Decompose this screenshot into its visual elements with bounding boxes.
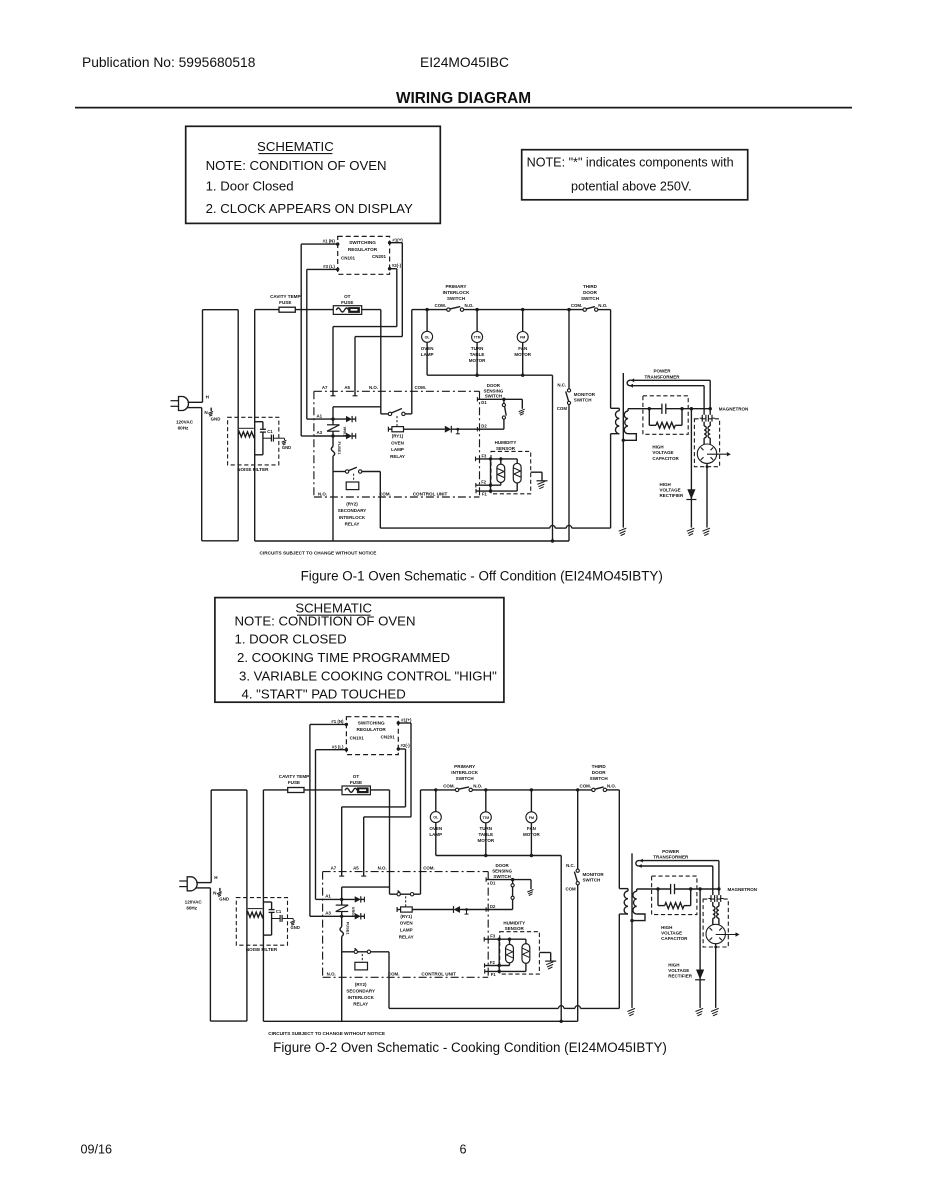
wire primary return [610,434,612,528]
label COM. bottom [379,491,390,496]
svg-text:TURN: TURN [471,346,484,351]
relay RY1 link [405,896,407,907]
svg-text:HUMIDITY: HUMIDITY [503,920,525,925]
magnetron dashed box [703,899,728,947]
svg-text:LAMP: LAMP [391,447,404,452]
third door switch S3 [592,787,607,792]
capacitor C1 [260,422,266,455]
svg-text:MONITOR: MONITOR [583,872,605,877]
oven lamp OL [422,310,433,376]
control unit dashed boundary [323,872,489,978]
ground rectifier [687,528,695,536]
relay RY2 link [361,954,363,962]
label FUSE1 [337,442,342,456]
fuse cavity temp [279,307,295,312]
svg-text:TRANSFORMER: TRANSFORMER [645,374,681,379]
wire pin1+ to A5 [355,243,402,392]
svg-text:TRANSFORMER: TRANSFORMER [653,855,689,860]
svg-text:SWITCH: SWITCH [456,776,475,781]
label HUMIDITY SENSOR [503,920,525,931]
svg-text:SCHEMATIC: SCHEMATIC [257,139,334,154]
label N.O. primary [473,784,482,789]
label SWITCHING REGULATOR [348,240,378,252]
relay contact RY2 [342,948,389,953]
svg-text:F1: F1 [491,972,497,977]
ground at plug [217,888,222,897]
svg-text:F2: F2 [490,960,496,965]
svg-text:1. DOOR CLOSED: 1. DOOR CLOSED [235,632,347,647]
svg-text:CONTROL UNIT: CONTROL UNIT [413,491,448,496]
wire sensor bypass [490,459,492,491]
svg-text:N.O.: N.O. [473,784,482,789]
svg-text:MOTOR: MOTOR [514,352,531,357]
svg-text:FAN: FAN [518,346,527,351]
terminal D1 [481,400,487,405]
svg-text:PRIMARY: PRIMARY [445,284,466,289]
terminal F2 [481,480,487,485]
wire D2 line [486,907,512,911]
high voltage capacitor dashed box [652,876,697,915]
svg-text:INTERLOCK: INTERLOCK [348,995,375,1000]
svg-text:C1: C1 [267,429,273,434]
transformer T1 primary [619,889,628,914]
node bypass junctions [489,484,492,493]
node TTM return [475,374,478,377]
svg-text:SECONDARY: SECONDARY [338,508,367,513]
relay contact RY1 [390,891,421,896]
magnetron filament leads [713,861,719,896]
pin #1(N) [331,719,348,726]
label GND noise filter [291,925,300,930]
svg-text:SWITCHING: SWITCHING [349,240,376,245]
label CN101 [341,255,356,260]
test point on lamp line [456,428,460,434]
label CN101 [350,736,365,741]
node OL tap [434,788,437,791]
switching regulator U1 dashed box [338,236,390,274]
label C1 [276,909,282,914]
wire lamp return [427,375,552,541]
svg-text:INTERLOCK: INTERLOCK [451,770,478,775]
svg-text:CAPACITOR: CAPACITOR [661,936,688,941]
wire neutral drop [209,888,211,1021]
label MONITOR SWITCH [583,872,605,883]
label 120VAC 60Hz [176,419,194,430]
relay coil RY2 [346,482,359,490]
capacitor C2 [272,915,287,922]
svg-text:COM.: COM. [415,385,426,390]
label MAGNETRON [728,887,758,892]
svg-text:CIRCUITS SUBJECT TO CHANGE WIT: CIRCUITS SUBJECT TO CHANGE WITHOUT NOTIC… [260,551,377,556]
label SWITCHING REGULATOR [357,720,387,732]
label N.C. [557,383,566,388]
node FM return [530,854,533,857]
svg-text:NOISE FILTER: NOISE FILTER [237,467,269,472]
node HV junctions [648,407,712,410]
wire HV line [628,408,710,410]
high voltage rectifier DH [695,889,705,1008]
wire F2 line [485,963,510,967]
svg-text:SECONDARY: SECONDARY [346,989,375,994]
svg-text:F2: F2 [481,480,487,485]
svg-text:A5: A5 [353,866,359,871]
inductor L1 [238,432,255,437]
svg-text:FUSE1: FUSE1 [337,442,342,456]
svg-text:VR01: VR01 [343,426,348,437]
fuse FUSE1 [340,916,343,952]
wire top loop [203,309,239,311]
wire F1 line [476,489,517,493]
AC plug P1 [171,397,203,411]
wire pin1N to A3 [301,244,338,436]
wire top loop [211,789,247,791]
svg-text:#2(-): #2(-) [401,743,411,748]
node monitor tap [567,308,570,311]
svg-text:N.O.: N.O. [369,385,378,390]
svg-text:FUSE1: FUSE1 [346,922,351,936]
node core junction [630,919,633,922]
svg-text:OL: OL [433,816,439,820]
svg-text:potential above 250V.: potential above 250V. [571,180,692,194]
svg-text:POWER: POWER [653,369,671,374]
terminal A7 [331,866,345,877]
wire hot riser [210,790,212,883]
label FAN MOTOR [514,346,531,357]
svg-text:SWITCH: SWITCH [581,296,600,301]
fuse cavity temp [288,788,304,793]
svg-text:CAPACITOR: CAPACITOR [652,456,679,461]
svg-text:#1 (N): #1 (N) [323,239,336,244]
fan motor FM [526,790,537,856]
ground rectifier [696,1008,704,1016]
label COM. third [571,303,582,308]
magnetron filament leads [704,380,710,415]
wire pin2- to A7 [333,269,397,392]
ground in noise filter [287,919,295,926]
wire magnetron cathode [706,463,709,527]
svg-text:OVEN: OVEN [421,346,434,351]
svg-text:DOOR: DOOR [487,383,501,388]
wire bus to cavity fuse [263,789,287,791]
control unit dashed boundary [314,391,480,497]
terminal D2 [481,424,487,429]
label N.O. bottom [327,972,336,977]
svg-text:VOLTAGE: VOLTAGE [652,450,673,455]
svg-text:DOOR: DOOR [496,863,510,868]
wire COM return [389,1006,619,1009]
svg-text:GND: GND [282,445,291,450]
ground in noise filter [278,438,286,445]
wire line riser [246,790,248,1021]
svg-text:RELAY: RELAY [399,934,414,939]
high voltage rectifier DH [686,409,696,528]
magnetron tube V1 [697,444,731,463]
svg-text:3. VARIABLE COOKING CONTROL "H: 3. VARIABLE COOKING CONTROL "HIGH" [239,669,497,684]
svg-text:CIRCUITS SUBJECT TO CHANGE WIT: CIRCUITS SUBJECT TO CHANGE WITHOUT NOTIC… [268,1031,385,1036]
wire bottom loop [210,1020,247,1022]
turntable motor TTM [472,310,483,376]
wire F3 line [484,937,526,942]
svg-text:DOOR: DOOR [583,290,597,295]
svg-text:N.C.: N.C. [566,863,575,868]
label COM. primary [435,303,446,308]
label FUSE1 [346,922,351,936]
node A1 junction [340,898,343,901]
wire branch to A1 [342,887,390,899]
wire D2 line [477,427,504,431]
svg-text:MAGNETRON: MAGNETRON [728,887,758,892]
label OVEN LAMP [421,346,434,357]
terminal A3 [325,911,331,916]
svg-text:TABLE: TABLE [470,352,485,357]
terminal F3 [482,453,488,458]
wire neutral bottom [263,1020,577,1022]
svg-text:4. "START" PAD TOUCHED: 4. "START" PAD TOUCHED [242,687,406,702]
label POWER TRANSFORMER [653,849,689,860]
svg-text:A1: A1 [317,413,323,418]
svg-text:F3: F3 [482,453,488,458]
filament feedthrough capacitors [708,895,723,906]
svg-text:N.O.: N.O. [318,491,327,496]
svg-text:FUSE: FUSE [350,780,362,785]
node monitor tap [576,788,579,791]
svg-text:CN201: CN201 [372,254,387,259]
svg-text:COM.: COM. [580,784,591,789]
node A3 junction [340,915,343,918]
svg-text:FM: FM [529,816,534,820]
svg-text:VOLTAGE: VOLTAGE [660,488,681,493]
label PRIMARY INTERLOCK SWITCH [451,764,478,781]
horizontal rule [75,107,852,109]
terminal F2 [490,960,496,965]
svg-text:RELAY: RELAY [345,521,360,526]
node FM tap [521,308,524,311]
varistor VR01 [336,899,349,916]
svg-text:(RY1): (RY1) [392,434,404,439]
relay RY1 link [396,416,398,427]
wire F1 line [485,969,526,973]
svg-text:A3: A3 [325,911,331,916]
svg-text:F3: F3 [490,934,496,939]
wire neutral through filter [254,310,256,541]
label GND [211,416,221,421]
ground door switch [527,880,533,896]
wire contact to COM return [388,952,390,1009]
label CN201 [372,254,387,259]
transformer filament winding [636,859,719,868]
wire OT fuse to relay [362,309,381,311]
noise filter dashed box [236,898,287,946]
svg-text:THIRD: THIRD [592,764,607,769]
ground magnetron [702,528,710,536]
terminal A5 [353,866,366,877]
label RY2 SECONDARY INTERLOCK RELAY [346,982,375,1007]
wire contact to COM return [379,472,381,529]
monitor switch S4 [566,310,571,541]
humidity sensor dashed box [500,932,540,974]
svg-text:DOOR: DOOR [592,770,606,775]
label GND noise filter [282,445,291,450]
node neutral junction [551,539,554,542]
svg-text:COM.: COM. [443,784,454,789]
AC plug P1 [179,877,211,891]
door sensing switch S2 [502,399,506,429]
magnetron dashed box [694,419,719,467]
svg-text:VR01: VR01 [351,907,356,918]
svg-text:GND: GND [211,416,221,421]
transformer T1 core [622,373,624,440]
svg-text:Publication No: 5995680518: Publication No: 5995680518 [82,55,256,70]
label N.O. top [369,385,378,390]
label N.O. primary [465,303,474,308]
svg-text:PRIMARY: PRIMARY [454,764,475,769]
wire primary return [618,914,620,1008]
svg-text:TURN: TURN [480,826,493,831]
label DOOR SENSING SWITCH [484,383,504,399]
svg-text:TABLE: TABLE [478,832,493,837]
terminal D1 [490,880,496,885]
svg-text:COM: COM [557,406,568,411]
capacitor CH plates [662,404,666,414]
svg-text:#2(-): #2(-) [392,263,402,268]
wire neutral through filter [262,790,264,1021]
transformer T1 secondary [632,889,645,921]
svg-text:VOLTAGE: VOLTAGE [668,968,689,973]
pin #2(-) [397,743,411,751]
svg-text:FUSE: FUSE [279,300,291,305]
primary interlock switch S1 [455,787,472,792]
label COM. primary [443,784,454,789]
ground door switch [519,399,525,415]
label COM. third [580,784,591,789]
terminal A1 [317,413,323,418]
terminal D2 [490,904,496,909]
label N.C. [566,863,575,868]
node D1 junction [502,398,505,401]
ground magnetron [711,1008,719,1016]
svg-text:WIRING DIAGRAM: WIRING DIAGRAM [396,90,531,107]
svg-text:FUSE: FUSE [288,780,300,785]
diode on A3 line [314,433,356,439]
svg-text:POWER: POWER [662,849,680,854]
relay coil RY1 [388,427,403,432]
label VR01 [351,907,356,918]
svg-text:FUSE: FUSE [341,300,353,305]
bleed resistor RH [649,409,682,429]
label HIGH VOLTAGE RECTIFIER [660,482,685,498]
humidity sensor dashed box [491,451,531,493]
svg-text:LAMP: LAMP [429,832,442,837]
svg-text:Figure O-2 Oven Schematic - Co: Figure O-2 Oven Schematic - Cooking Cond… [273,1040,667,1055]
label VR01 [343,426,348,437]
capacitor C1 stubs [255,422,263,455]
label N.O. third [598,303,607,308]
wire third switch drop [610,310,612,409]
svg-text:REGULATOR: REGULATOR [357,727,387,732]
svg-text:CN101: CN101 [341,255,356,260]
relay coil RY1 [397,907,412,912]
wire line riser [237,310,239,541]
node F3 junctions [498,938,512,941]
label HIGH VOLTAGE CAPACITOR [661,925,688,941]
relay contact RY2 [333,467,380,473]
filament feedthrough capacitors [700,415,715,426]
label POWER TRANSFORMER [645,369,681,380]
svg-text:#1 (N): #1 (N) [331,719,344,724]
svg-text:NOTE: CONDITION OF OVEN: NOTE: CONDITION OF OVEN [206,158,387,173]
svg-text:CONTROL UNIT: CONTROL UNIT [421,972,456,977]
label MONITOR SWITCH [574,392,596,403]
ground humidity [531,472,548,489]
pin #1(+) [388,237,403,244]
label C1 [267,429,273,434]
primary interlock switch S1 [447,307,464,312]
inductor L1 core [239,427,254,429]
wire lamp bus [412,309,611,311]
svg-text:D2: D2 [481,424,487,429]
wire sensor bypass [498,939,500,971]
transformer T1 primary [611,408,620,433]
svg-text:SENSOR: SENSOR [496,446,516,451]
wire F3 line [476,457,518,462]
svg-text:SWITCH: SWITCH [590,776,609,781]
svg-text:SWITCH: SWITCH [447,296,466,301]
label DOOR SENSING SWITCH [492,863,512,879]
label TURN TABLE MOTOR [469,346,486,363]
wire third switch drop [618,790,620,889]
svg-text:N.O.: N.O. [465,303,474,308]
svg-text:#3 (L): #3 (L) [323,264,335,269]
svg-text:#1(+): #1(+) [392,237,403,242]
svg-text:120VAC: 120VAC [185,900,203,905]
svg-text:MOTOR: MOTOR [469,358,486,363]
svg-text:GND: GND [291,925,300,930]
svg-text:MAGNETRON: MAGNETRON [719,407,749,412]
label MAGNETRON [719,407,749,412]
wire cavity fuse to OT fuse [295,309,333,311]
node H [214,875,218,880]
fan motor FM [517,310,528,376]
wire relay feed N.O. [389,790,391,894]
node A1 junction [331,417,334,420]
svg-text:(RY2): (RY2) [355,982,367,987]
oven lamp OL [430,790,441,856]
ground transformer [619,440,627,535]
wire RY2 drop [332,472,334,542]
svg-text:COM.: COM. [571,303,582,308]
wire pin2- to A7 [342,749,406,872]
wire lamp bus [421,789,620,791]
label GND [219,897,229,902]
magnetron choke coils [713,906,719,925]
wire bottom loop [202,540,239,542]
svg-text:120VAC: 120VAC [176,419,194,424]
diode D1 lamp line [412,906,488,913]
high voltage capacitor dashed box [643,396,688,435]
label RY1 OVEN LAMP RELAY [390,434,405,459]
svg-text:60Hz: 60Hz [186,906,197,911]
svg-text:EI24MO45IBC: EI24MO45IBC [420,55,509,70]
relay RY2 link [353,474,355,482]
svg-text:D1: D1 [490,880,496,885]
svg-text:RECTIFIER: RECTIFIER [660,493,685,498]
node bypass junctions [498,964,501,973]
fuse OT [342,786,370,795]
node FM return [521,374,524,377]
wire pin1+ to A5 [364,723,411,872]
terminal A7 [322,385,336,396]
bleed resistor RH [658,889,691,909]
